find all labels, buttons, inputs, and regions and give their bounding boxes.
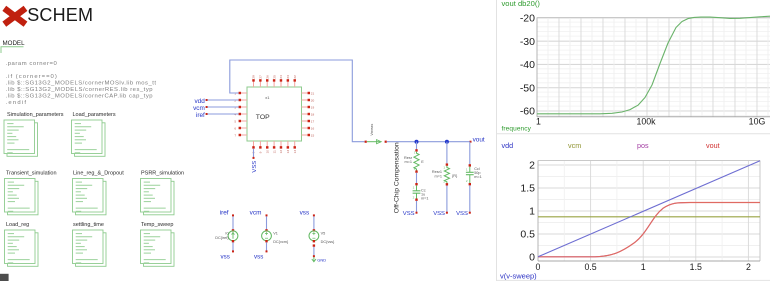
svg-text:10: 10 bbox=[265, 150, 269, 154]
svg-text:21: 21 bbox=[311, 91, 315, 95]
pin label vss (source) bbox=[300, 210, 315, 217]
svg-text:9: 9 bbox=[259, 151, 263, 153]
wire Resr to Cc bbox=[416, 173, 418, 184]
node vout label bbox=[470, 137, 485, 144]
wire V1 to vss bbox=[266, 242, 268, 251]
voltage source V1 DC{vcm} bbox=[262, 229, 289, 244]
chip pin 20 (right) bbox=[302, 98, 315, 102]
wire Resr1 to VSS bbox=[446, 186, 448, 213]
svg-text:TOP: TOP bbox=[256, 114, 270, 121]
svg-text:vdd: vdd bbox=[502, 141, 514, 150]
chip pin 17 (right) bbox=[302, 119, 315, 123]
ground label VSS branch 1 bbox=[403, 211, 418, 217]
svg-text:26: 26 bbox=[265, 75, 269, 79]
chart v(v-sweep) grid bbox=[538, 161, 760, 262]
svg-text:vss: vss bbox=[254, 253, 263, 260]
pin label vcm (source) bbox=[250, 210, 268, 217]
svg-text:25: 25 bbox=[272, 75, 276, 79]
svg-text:27: 27 bbox=[259, 75, 263, 79]
svg-text:vdd: vdd bbox=[194, 98, 205, 105]
svg-text:13: 13 bbox=[286, 150, 290, 154]
svg-text:5: 5 bbox=[234, 119, 236, 123]
svg-text:m=1: m=1 bbox=[405, 160, 413, 164]
curve vcm bbox=[538, 216, 760, 218]
svg-text:12: 12 bbox=[279, 150, 283, 154]
svg-text:VSS: VSS bbox=[252, 161, 258, 173]
svg-text:VSS: VSS bbox=[403, 211, 415, 217]
block Load_parameters bbox=[72, 112, 116, 157]
svg-text:vcm: vcm bbox=[193, 105, 205, 112]
svg-text:Off-Chip Compensation: Off-Chip Compensation bbox=[394, 142, 401, 213]
chip pin 24 (top) bbox=[279, 75, 283, 87]
chip pin 7 (left) bbox=[234, 133, 247, 137]
block PSRR_simulation bbox=[141, 170, 185, 215]
svg-text:28: 28 bbox=[252, 75, 256, 79]
svg-text:vout: vout bbox=[473, 137, 485, 144]
chip pin 4 (left) bbox=[234, 112, 247, 116]
svg-text:.if (corner==0): .if (corner==0) bbox=[6, 74, 57, 80]
pin label vdd bbox=[194, 98, 207, 105]
svg-text:24: 24 bbox=[279, 75, 283, 79]
svg-text:Resr: Resr bbox=[404, 156, 413, 160]
svg-text:vout db20(): vout db20() bbox=[502, 0, 541, 8]
svg-text:vcm: vcm bbox=[568, 141, 581, 150]
svg-text:1: 1 bbox=[536, 117, 541, 127]
node junction at branch 1 bbox=[415, 140, 419, 144]
ground label vss under V1 bbox=[254, 250, 267, 260]
ammeter Vmeas bbox=[365, 124, 387, 144]
svg-text:iref: iref bbox=[220, 210, 229, 217]
block Temp_sweep bbox=[141, 222, 175, 266]
svg-text:VSS: VSS bbox=[433, 211, 445, 217]
svg-text:0: 0 bbox=[536, 262, 541, 272]
voltage source V5 DC{vss} bbox=[309, 229, 335, 244]
chip pin 3 (left) bbox=[234, 105, 247, 109]
svg-text:11: 11 bbox=[272, 150, 276, 153]
svg-text:vcm: vcm bbox=[250, 210, 262, 217]
chip pin 28 (top) bbox=[252, 75, 256, 87]
wire chip pin 8 to VSS bbox=[253, 149, 255, 158]
svg-text:.param corner=0: .param corner=0 bbox=[6, 61, 58, 67]
svg-text:1.5: 1.5 bbox=[520, 183, 535, 195]
svg-text:Resr1: Resr1 bbox=[432, 170, 442, 174]
svg-text:VSS: VSS bbox=[456, 211, 468, 217]
ground GND symbol bbox=[312, 255, 327, 262]
svg-text:vss: vss bbox=[221, 253, 230, 260]
curve vout gain bbox=[537, 16, 770, 114]
ground label VSS branch 2 bbox=[433, 211, 448, 217]
svg-text:23: 23 bbox=[286, 75, 290, 79]
svg-text:settling_time: settling_time bbox=[73, 222, 104, 228]
svg-text:-30: -30 bbox=[520, 36, 535, 48]
chip pin 1 (left) bbox=[234, 91, 247, 95]
svg-text:vss: vss bbox=[300, 210, 310, 217]
node junction at branch 2 bbox=[445, 140, 449, 144]
chip pin 19 (right) bbox=[302, 105, 315, 109]
svg-text:Temp_sweep: Temp_sweep bbox=[141, 222, 173, 228]
chart2 x axis labels bbox=[536, 262, 751, 272]
svg-text:pos: pos bbox=[637, 141, 649, 150]
svg-text:Simulation_parameters: Simulation_parameters bbox=[7, 112, 64, 118]
svg-text:-40: -40 bbox=[520, 59, 535, 71]
chip pin 8 (bottom) bbox=[252, 141, 256, 153]
capacitor Ccl 50p bbox=[466, 164, 482, 185]
svg-text:1.5: 1.5 bbox=[690, 262, 702, 272]
wire vss to V5 bbox=[313, 216, 315, 229]
block Line_reg_Dropout bbox=[73, 170, 125, 215]
wire iref to I0 bbox=[232, 216, 234, 229]
svg-text:.lib $::SG13G2_MODELS/cornerRE: .lib $::SG13G2_MODELS/cornerRES.lib res_… bbox=[6, 87, 154, 93]
svg-text:DC{vcm}: DC{vcm} bbox=[273, 240, 289, 244]
logo X (xschem) bbox=[4, 8, 25, 24]
svg-text:14: 14 bbox=[293, 150, 297, 154]
svg-text:10G: 10G bbox=[749, 117, 766, 127]
svg-text:GND: GND bbox=[317, 257, 326, 262]
chip pin 27 (top) bbox=[259, 75, 263, 87]
svg-text:V5: V5 bbox=[321, 232, 326, 236]
ground label VSS under chip bbox=[252, 157, 258, 173]
svg-text:15: 15 bbox=[311, 133, 315, 137]
wire vdd to chip bbox=[208, 99, 239, 101]
wire junction to Resr1 bbox=[446, 142, 448, 164]
svg-text:1: 1 bbox=[641, 262, 646, 272]
svg-text:20: 20 bbox=[311, 98, 315, 102]
chip pin 25 (top) bbox=[272, 75, 276, 87]
chip pin 9 (bottom) bbox=[259, 141, 263, 153]
capacitor Cc 1u bbox=[413, 183, 429, 201]
pin label vcm bbox=[193, 105, 208, 112]
svg-text:-20: -20 bbox=[520, 13, 535, 25]
current source I0 DC{iref} bbox=[215, 229, 238, 242]
chip pin 10 (bottom) bbox=[265, 141, 269, 153]
svg-text:18: 18 bbox=[311, 112, 315, 116]
wire Ccl to VSS bbox=[469, 185, 471, 212]
svg-text:-50: -50 bbox=[520, 83, 535, 95]
svg-text:-60: -60 bbox=[520, 106, 535, 118]
chart2 y axis labels bbox=[520, 160, 535, 264]
svg-text:SCHEM: SCHEM bbox=[27, 5, 93, 25]
chip U1 TOP body bbox=[247, 87, 302, 141]
block Simulation_parameters bbox=[4, 112, 64, 157]
svg-text:.lib $::SG13G2_MODELS/cornerMO: .lib $::SG13G2_MODELS/cornerMOSlv.lib mo… bbox=[6, 81, 157, 87]
svg-text:1: 1 bbox=[529, 206, 535, 218]
chip pin 12 (bottom) bbox=[279, 141, 283, 153]
chart1 y axis labels bbox=[520, 13, 535, 118]
svg-text:7: 7 bbox=[234, 133, 236, 137]
svg-text:Transient_simulation: Transient_simulation bbox=[6, 170, 57, 176]
svg-text:100k: 100k bbox=[636, 117, 656, 127]
wire vcm to V1 bbox=[266, 216, 268, 229]
svg-text:PSRR_simulation: PSRR_simulation bbox=[141, 170, 184, 176]
chip pin 5 (left) bbox=[234, 119, 247, 123]
spice code text block bbox=[6, 61, 157, 106]
svg-text:2: 2 bbox=[529, 160, 535, 172]
ground label VSS branch 3 bbox=[456, 211, 471, 217]
svg-text:19: 19 bbox=[311, 105, 315, 109]
svg-text:{R}: {R} bbox=[452, 174, 458, 178]
curve vdd bbox=[538, 161, 760, 257]
wire I0 to vss bbox=[232, 242, 234, 251]
block Transient_simulation bbox=[5, 170, 57, 215]
wire Cc to VSS bbox=[416, 201, 418, 213]
chip pin 21 (right) bbox=[302, 91, 315, 95]
block settling_time bbox=[73, 222, 107, 266]
svg-text:2: 2 bbox=[746, 262, 751, 272]
ground label vss under I0 bbox=[221, 250, 234, 260]
resistor Resr bbox=[404, 149, 424, 173]
svg-text:Line_reg_&_Dropout: Line_reg_&_Dropout bbox=[73, 170, 124, 176]
svg-text:DC{iref}: DC{iref} bbox=[215, 236, 229, 240]
chip pin 11 (bottom) bbox=[272, 141, 276, 153]
chip pin 2 (left) bbox=[234, 98, 247, 102]
svg-text:Load_reg: Load_reg bbox=[6, 222, 29, 228]
svg-text:m=1: m=1 bbox=[421, 196, 429, 200]
svg-text:0.5: 0.5 bbox=[584, 262, 596, 272]
panel separator lines bbox=[497, 0, 770, 281]
svg-text:6: 6 bbox=[234, 126, 236, 130]
wire V5 to GND bbox=[313, 244, 315, 255]
svg-text:.lib $::SG13G2_MODELS/cornerCA: .lib $::SG13G2_MODELS/cornerCAP.lib cap_… bbox=[6, 94, 154, 100]
pin label iref bbox=[196, 112, 208, 119]
wire iref to chip bbox=[208, 113, 239, 115]
svg-text:iref: iref bbox=[196, 112, 205, 119]
svg-text:22: 22 bbox=[293, 75, 297, 79]
svg-text:16: 16 bbox=[311, 126, 315, 130]
curve vout dc bbox=[538, 203, 760, 257]
svg-text:E: E bbox=[421, 160, 424, 164]
pin label iref (source) bbox=[220, 210, 234, 217]
chip pin 16 (right) bbox=[302, 126, 315, 130]
wire junction to Resr bbox=[416, 142, 418, 151]
svg-text:v(v-sweep): v(v-sweep) bbox=[500, 272, 537, 281]
chip pin 26 (top) bbox=[265, 75, 269, 87]
corner scrollbar square bbox=[0, 274, 9, 281]
svg-text:Vmeas: Vmeas bbox=[370, 124, 374, 136]
svg-text:m=1: m=1 bbox=[435, 175, 443, 179]
svg-text:0: 0 bbox=[529, 252, 535, 264]
svg-text:m=1: m=1 bbox=[474, 175, 482, 179]
svg-text:V1: V1 bbox=[273, 232, 278, 236]
wire Vmeas to vout bbox=[387, 141, 471, 143]
svg-text:vout: vout bbox=[706, 141, 720, 150]
chart vout db20() grid bbox=[537, 18, 770, 117]
svg-text:17: 17 bbox=[311, 119, 315, 123]
chip pin 15 (right) bbox=[302, 133, 315, 137]
wire net from pin 1 over chip to Vmeas bbox=[230, 60, 365, 142]
wire vcm to chip bbox=[208, 106, 239, 108]
block Load_reg bbox=[5, 222, 39, 266]
svg-text:frequency: frequency bbox=[502, 125, 532, 132]
chip pin 6 (left) bbox=[234, 126, 247, 130]
green frame corner of MODEL block bbox=[1, 47, 24, 53]
wire vout to Ccl bbox=[469, 142, 471, 166]
svg-text:I0: I0 bbox=[225, 232, 228, 236]
svg-text:DC{vss}: DC{vss} bbox=[321, 240, 335, 244]
resistor Resr1 bbox=[432, 163, 458, 185]
svg-text:Load_parameters: Load_parameters bbox=[73, 112, 116, 118]
chip pin 18 (right) bbox=[302, 112, 315, 116]
svg-text:MODEL: MODEL bbox=[3, 40, 26, 47]
chip pin 13 (bottom) bbox=[286, 141, 290, 153]
curve pos (hidden under vout) bbox=[538, 203, 760, 257]
chip pin 14 (bottom) bbox=[293, 141, 297, 153]
chip pin 22 (top) bbox=[293, 75, 297, 87]
svg-text:0.5: 0.5 bbox=[520, 229, 535, 241]
chip pin 23 (top) bbox=[286, 75, 290, 87]
